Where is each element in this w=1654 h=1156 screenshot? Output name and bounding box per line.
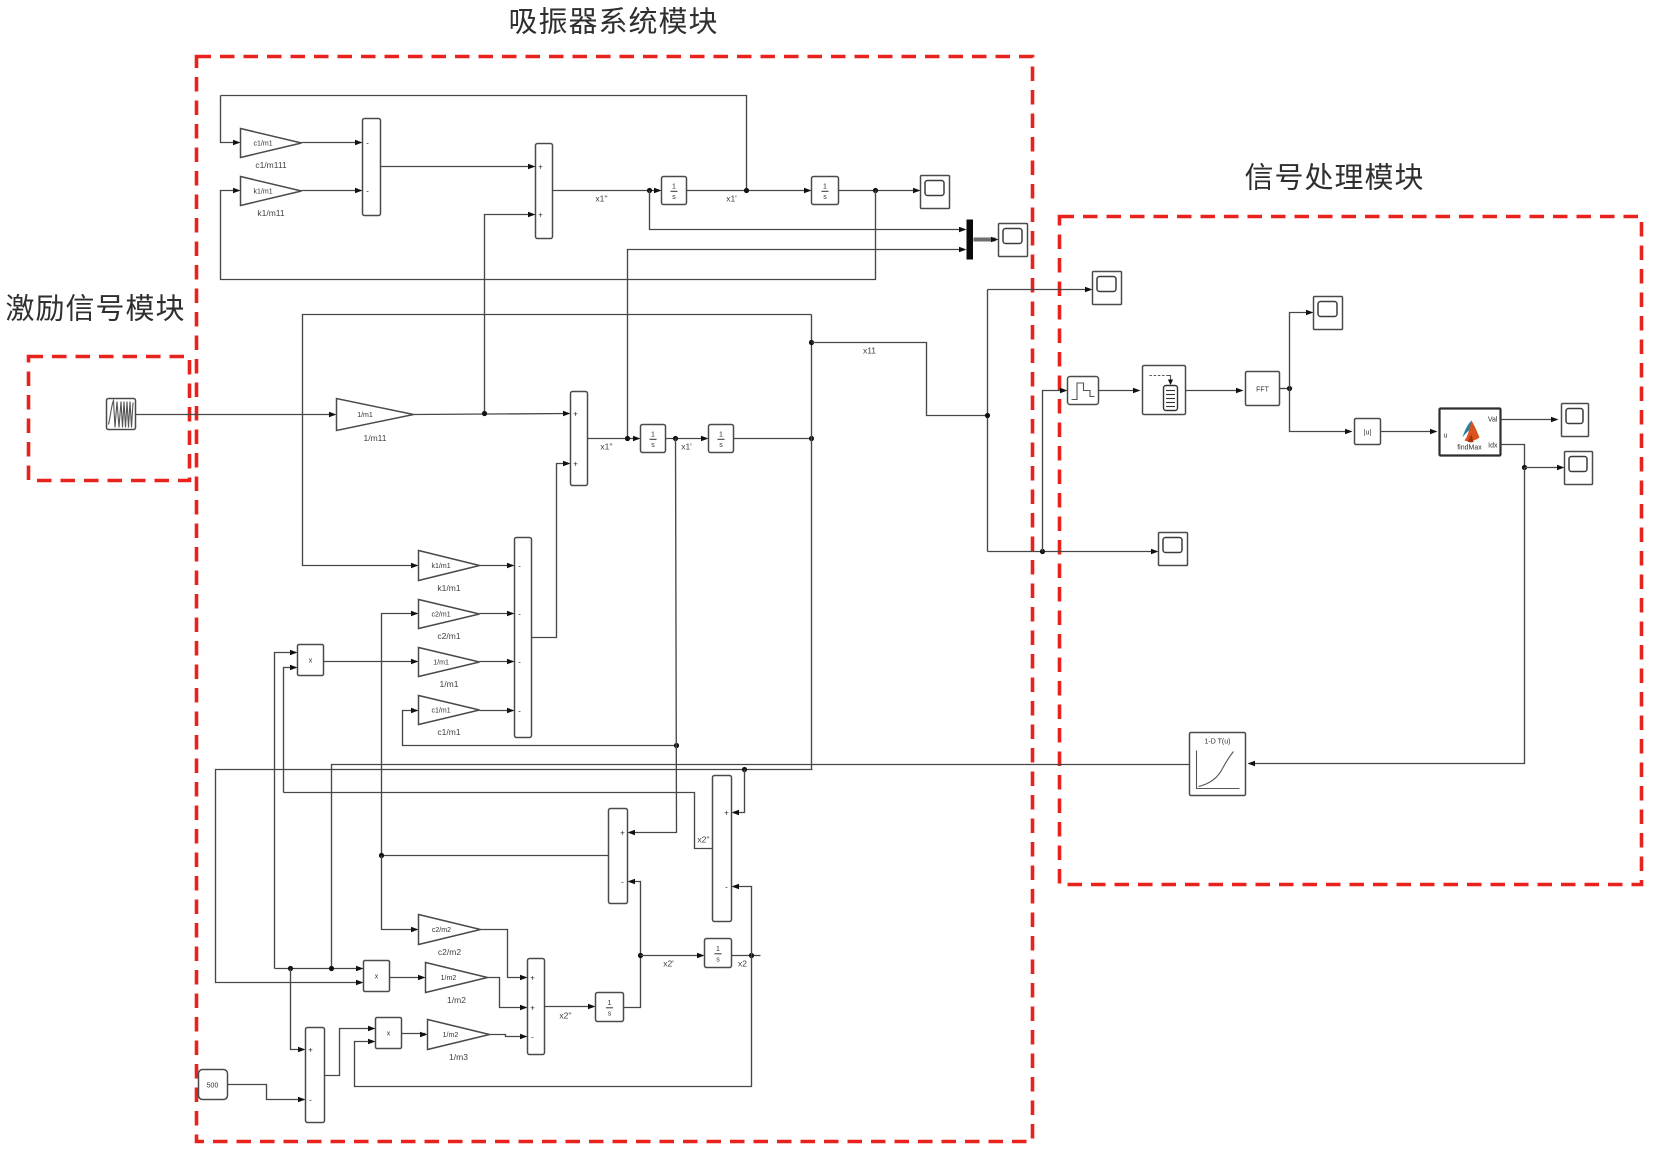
svg-text:x1'': x1'' <box>600 442 613 452</box>
integrator 1/s (mid chain first) <box>641 425 666 453</box>
gain 1/m2 (upper) <box>426 963 488 1006</box>
wire x2 to bottom sum2 minus <box>734 887 752 956</box>
gain 1/m1 (excitation, label 1/m11) <box>337 399 414 444</box>
wire mid sum out to main sum port2 <box>532 464 569 638</box>
wire k1/m1 out to sum <box>302 190 361 192</box>
wire rel velocity to c2/m1 mid <box>382 614 417 856</box>
integrator 1/s (mid chain second) <box>709 425 734 453</box>
svg-text:+: + <box>538 210 543 219</box>
multiply block (lower bottom) <box>376 1018 402 1049</box>
wire x11 to signal processing <box>812 343 988 416</box>
svg-text:+: + <box>538 162 543 171</box>
integrator 1/s (bottom first) <box>596 993 624 1022</box>
multiply block (mid) <box>298 645 324 676</box>
wire x2 down to multiply bottom in2 <box>355 956 752 1087</box>
FFT block <box>1246 372 1280 406</box>
svg-text:+: + <box>620 828 625 837</box>
svg-text:x1': x1' <box>726 194 737 204</box>
dashed boundary absorber system module <box>197 57 1033 1142</box>
svg-text:c1/m1: c1/m1 <box>254 140 273 147</box>
svg-text:-: - <box>518 561 521 570</box>
svg-text:-: - <box>366 138 369 147</box>
junction Idx <box>1522 465 1527 470</box>
svg-text:c2/m2: c2/m2 <box>432 927 451 934</box>
wire to sum4 minus port <box>490 1035 526 1037</box>
wire x1'' mid <box>588 438 639 440</box>
wire x2' to integrator2 <box>641 955 703 957</box>
junction excitation force <box>482 411 487 416</box>
junction x2' <box>638 953 643 958</box>
1-D lookup table block 1-D T(u) <box>1190 733 1246 796</box>
svg-text:c2/m2: c2/m2 <box>438 947 461 957</box>
wire Idx down to lookup table <box>1250 468 1525 764</box>
mux (black bar) feeding scope <box>967 220 974 260</box>
svg-text:-: - <box>621 877 624 886</box>
junction k(t) main <box>329 966 334 971</box>
svg-text:1: 1 <box>672 183 676 190</box>
scope (top chain x1) <box>921 176 950 209</box>
junction x1'' mid <box>625 436 630 441</box>
wire excitation force to main sum <box>414 414 569 415</box>
svg-text:x2': x2' <box>663 959 674 969</box>
svg-text:k1/m11: k1/m11 <box>257 208 285 218</box>
constant 500 <box>199 1070 228 1100</box>
svg-text:500: 500 <box>207 1083 219 1090</box>
svg-text:-: - <box>518 706 521 715</box>
junction x11 to bottom sum2 <box>742 767 747 772</box>
dashed boundary signal processing module <box>1060 217 1642 885</box>
svg-text:x1': x1' <box>681 442 692 452</box>
svg-text:x: x <box>387 1031 391 1038</box>
junction k(t) down <box>288 966 293 971</box>
svg-text:-: - <box>309 1095 312 1104</box>
svg-text:1/m11: 1/m11 <box>364 433 387 443</box>
svg-text:u: u <box>1444 433 1448 440</box>
multiply block (upper bottom) <box>364 961 390 992</box>
junction x1' top <box>744 188 749 193</box>
svg-text:1: 1 <box>719 431 723 438</box>
wire x11 out of integrator <box>734 438 812 440</box>
gain 1/m1 (mid) <box>419 648 480 690</box>
svg-text:k1/m1: k1/m1 <box>437 583 460 593</box>
scope sp3 (Val) <box>1562 404 1589 437</box>
wire x11 into bottom sum2 plus <box>734 770 745 813</box>
wire x2'' to integrator <box>545 1006 594 1008</box>
wire x1' top integrator out <box>687 190 810 192</box>
wire to scope sp5 <box>988 551 1156 553</box>
wire x1 feedback to k1/m1 top <box>221 191 876 280</box>
wire 1/m2 out to sum4 port2 <box>488 978 526 1008</box>
scope sp5 (x11 bottom) <box>1159 533 1188 566</box>
wire c1/m1 mid to sum <box>480 710 513 712</box>
scope sp2 (FFT) <box>1314 297 1343 330</box>
wire k1/m1 mid to sum <box>480 565 513 567</box>
wire x11 feedback to k1/m1 mid <box>303 315 812 566</box>
wire to scope sp1 <box>988 289 1090 291</box>
wire FFT out <box>1280 388 1290 390</box>
junction x1' branch <box>674 743 679 748</box>
main sum block (mid chain) <box>571 392 588 486</box>
wire x11 to rate transition <box>1043 391 1065 552</box>
sum block k(t)-500 <box>306 1028 325 1123</box>
svg-text:1/m1: 1/m1 <box>433 659 449 666</box>
wire abs to findMax <box>1381 431 1435 433</box>
wire x2 out <box>732 955 761 957</box>
wire multiply bottom out to 1/m2 gain <box>402 1033 426 1035</box>
gain c2/m1 (mid) <box>419 600 480 642</box>
svg-text:激励信号模块: 激励信号模块 <box>5 293 185 326</box>
svg-text:x11: x11 <box>863 346 876 356</box>
abs block |u| <box>1355 419 1381 445</box>
wire FFT to abs <box>1290 389 1350 432</box>
wire x1' mid <box>666 438 707 440</box>
sum block bottom-left mirrored (x1'-x2') <box>609 809 628 904</box>
svg-text:k1/m1: k1/m1 <box>254 188 273 195</box>
svg-text:k1/m1: k1/m1 <box>432 563 451 570</box>
wire rel velocity out (leftwards) <box>382 855 609 857</box>
wire buffer to FFT <box>1186 390 1241 392</box>
wire sum1 out to sum2 port1 <box>381 166 534 168</box>
wire k(t) from lookup table (long) <box>332 765 1190 969</box>
svg-text:Idx: Idx <box>1488 443 1498 450</box>
svg-text:1: 1 <box>608 1000 612 1007</box>
svg-text:findMax: findMax <box>1457 445 1482 452</box>
svg-text:s: s <box>608 1011 612 1018</box>
svg-text:+: + <box>724 808 729 817</box>
svg-text:x: x <box>375 974 379 981</box>
svg-text:1/m1: 1/m1 <box>440 679 459 689</box>
wire into c1/m1 top <box>221 96 239 143</box>
svg-text:x2'': x2'' <box>559 1011 572 1021</box>
wire c1/m1 out to sum <box>302 142 361 144</box>
wire to buffer <box>1099 390 1138 392</box>
svg-text:1-D T(u): 1-D T(u) <box>1205 739 1231 746</box>
junction rel velocity <box>379 853 384 858</box>
wire c2/m2 out to sum4 port1 <box>481 930 526 978</box>
svg-text:吸振器系统模块: 吸振器系统模块 <box>508 6 718 39</box>
sum block bottom-right mirrored (x11-x2) <box>713 776 732 922</box>
wire Idx out <box>1501 445 1525 468</box>
wire x1 top integrator out to scope <box>839 190 919 192</box>
gain c1/m1 (mid) <box>419 696 480 738</box>
wire k(t) down to const sum plus <box>291 969 304 1050</box>
rate transition block (pulse icon) <box>1068 377 1099 405</box>
wire x2'' up to multiply mid in2 <box>284 668 296 793</box>
wire k(t) to multiply in1 <box>275 968 362 970</box>
wire x1' to c1/m1 mid <box>403 711 677 746</box>
wire x1' vertical down to bottom sum <box>630 439 677 833</box>
wire x11 lower trunk to multiply <box>216 770 813 983</box>
svg-text:c2/m1: c2/m1 <box>432 611 451 618</box>
svg-text:+: + <box>308 1045 313 1054</box>
svg-text:x2'': x2'' <box>697 835 710 845</box>
svg-text:信号处理模块: 信号处理模块 <box>1244 162 1424 195</box>
wire rel velocity to c2/m2 <box>382 856 417 930</box>
svg-text:|u|: |u| <box>1364 430 1372 437</box>
svg-text:FFT: FFT <box>1256 387 1270 394</box>
svg-text:-: - <box>531 1032 534 1041</box>
wire x1' feedback top (to c1/m1) <box>221 96 747 191</box>
integrator 1/s (top chain, x1' to x1) <box>812 177 839 205</box>
junction to rate transition <box>1040 549 1045 554</box>
sum block top-left (two minus) <box>363 119 381 216</box>
svg-text:-: - <box>518 657 521 666</box>
wire mux out to scope (thick) <box>974 238 996 242</box>
svg-text:c1/m1: c1/m1 <box>437 727 460 737</box>
junction x1' mid <box>673 436 678 441</box>
wire x1'' top, sum2 out to integrator <box>553 190 660 192</box>
junction x11 <box>809 436 814 441</box>
svg-text:s: s <box>716 957 720 964</box>
svg-text:1/m3: 1/m3 <box>449 1052 468 1062</box>
wire x11 vertical trunk <box>811 315 813 770</box>
junction x1 top <box>873 188 878 193</box>
svg-text:1/m1: 1/m1 <box>357 412 373 419</box>
wire multiply out to 1/m1 mid <box>324 661 417 663</box>
junction x11 to signal module <box>809 340 814 345</box>
svg-text:s: s <box>672 194 676 201</box>
svg-text:+: + <box>573 409 578 418</box>
svg-text:c2/m1: c2/m1 <box>437 631 460 641</box>
wire c2/m1 mid to sum <box>480 613 513 615</box>
scope sp4 (Idx) <box>1565 452 1593 485</box>
integrator 1/s (top chain, x1'' to x1') <box>662 177 687 205</box>
MATLAB function block findMax <box>1440 409 1501 456</box>
svg-text:-: - <box>518 609 521 618</box>
svg-text:x1'': x1'' <box>595 194 608 204</box>
chirp signal source block <box>107 399 136 430</box>
integrator 1/s (bottom second) <box>705 939 732 968</box>
sum block top (two plus) <box>536 144 553 239</box>
svg-text:1/m2: 1/m2 <box>443 1032 459 1039</box>
scope after mux <box>999 224 1028 257</box>
gain 1/m2 (lower, label 1/m3) <box>428 1020 490 1063</box>
wire Val to scope sp3 <box>1501 419 1556 421</box>
wire x2'' return line <box>284 793 713 849</box>
sum block mid (four minus) <box>515 538 532 738</box>
svg-text:Val: Val <box>1488 417 1498 424</box>
gain k1/m1 (top, label k1/m11) <box>241 177 302 219</box>
wire Idx to scope sp4 <box>1525 467 1562 469</box>
wire excitation to 1/m1 gain <box>136 414 335 416</box>
gain k1/m1 (mid) <box>419 551 480 594</box>
buffer block <box>1143 366 1186 415</box>
svg-text:+: + <box>530 973 535 982</box>
junction x2 <box>749 953 754 958</box>
wire 500 to const sum minus <box>228 1085 304 1100</box>
wire x1'' mid to mux in2 <box>628 250 964 439</box>
wire FFT to scope sp2 <box>1290 313 1311 389</box>
junction FFT out <box>1287 386 1292 391</box>
svg-text:c1/m1: c1/m1 <box>432 707 451 714</box>
svg-text:+: + <box>573 459 578 468</box>
gain c1/m1 (top, label c1/m111) <box>241 129 302 171</box>
svg-text:-: - <box>366 186 369 195</box>
scope sp1 (x11 top) <box>1093 272 1122 305</box>
svg-text:x: x <box>309 658 313 665</box>
svg-text:c1/m111: c1/m111 <box>255 160 287 170</box>
wire excitation branch up to sum2 port2 <box>485 215 534 414</box>
junction x11 signal module <box>985 413 990 418</box>
wire x1'' top to mux in1 <box>650 191 964 230</box>
svg-text:1/m2: 1/m2 <box>447 995 466 1005</box>
wire k(t) up to multiply mid in1 <box>275 653 296 969</box>
wire k(t)-500 to multiply in1 <box>325 1029 374 1076</box>
wire 1/m1 mid to sum <box>480 661 513 663</box>
gain c2/m2 <box>419 915 481 958</box>
svg-text:1: 1 <box>651 431 655 438</box>
wire x11 vertical in signal module <box>987 290 989 552</box>
svg-text:x2: x2 <box>738 959 747 969</box>
junction x1'' top <box>647 188 652 193</box>
svg-text:s: s <box>719 442 723 449</box>
svg-text:1/m2: 1/m2 <box>441 975 457 982</box>
sum block bottom (4-port) <box>528 959 545 1055</box>
svg-text:-: - <box>725 882 728 891</box>
svg-text:s: s <box>651 442 655 449</box>
wire x2' up to bottom sum1 minus <box>624 882 641 1008</box>
svg-text:1: 1 <box>823 183 827 190</box>
wire multiply out to 1/m2 <box>390 977 424 979</box>
dashed boundary excitation module <box>29 357 190 481</box>
svg-text:s: s <box>823 194 827 201</box>
svg-text:+: + <box>530 1003 535 1012</box>
svg-text:1: 1 <box>716 946 720 953</box>
